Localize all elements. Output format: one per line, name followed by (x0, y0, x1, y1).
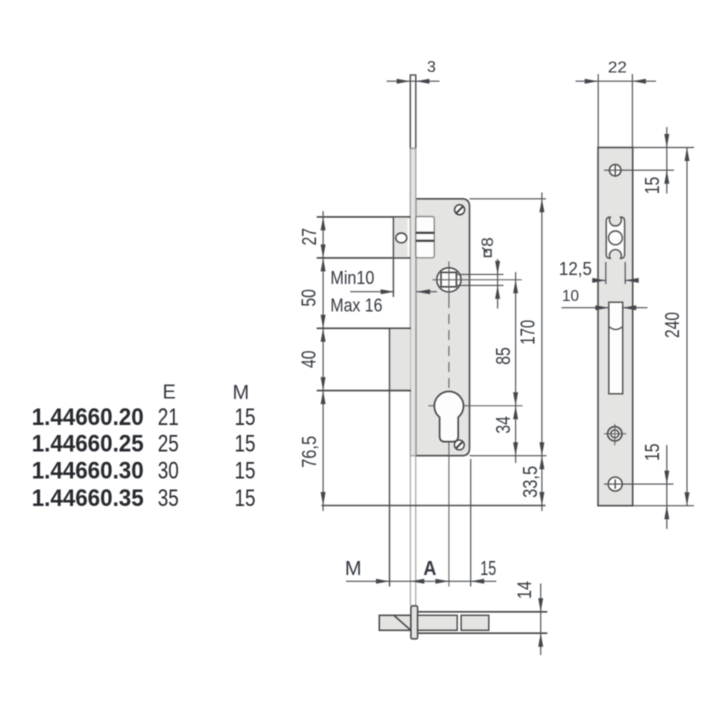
arrows chain dim 40 (321, 328, 326, 342)
bottom view latch bolt (379, 615, 411, 630)
svg-text:12,5: 12,5 (559, 259, 592, 279)
latch housing top line (317, 216, 411, 218)
dimension line dia 8 (497, 259, 499, 309)
svg-text:8: 8 (478, 237, 497, 246)
dimension 3 line (387, 80, 440, 82)
svg-text:1.44660.20: 1.44660.20 (32, 404, 144, 431)
lock body plate (416, 199, 470, 456)
svg-text:85: 85 (493, 347, 515, 365)
svg-text:E: E (163, 381, 176, 403)
dimension 15 bottom (666, 445, 668, 529)
latch roller ellipse (396, 233, 407, 243)
body top screw (455, 205, 465, 215)
svg-text:21: 21 (158, 404, 179, 431)
faceplate edge strip upper white part (410, 75, 416, 149)
right view top screw leader line (604, 169, 674, 171)
left chain dimension line (322, 211, 324, 511)
deadbolt end arc (609, 327, 623, 330)
body top extension line (470, 198, 547, 200)
arrows chain dim 50 (321, 258, 326, 272)
bottom view case white area (418, 613, 540, 633)
min-max dimension line (350, 291, 394, 293)
svg-text:25: 25 (158, 431, 179, 458)
latch tail bar lines (416, 232, 435, 234)
svg-text:15: 15 (235, 485, 256, 512)
svg-text:15: 15 (235, 431, 256, 458)
right view fixing point target (608, 427, 622, 441)
case gray infill 40 zone (390, 329, 411, 390)
right view deadbolt slot (609, 302, 623, 394)
spindle vertical centerline (448, 262, 450, 299)
right view faceplate front (598, 148, 633, 506)
bottom view case bottom line (418, 632, 548, 634)
dimension line 170 and 33,5 (541, 193, 543, 512)
dimension 240 (686, 148, 688, 506)
body bottom extension line (470, 455, 547, 457)
bottom dimension line M A 15 (346, 580, 496, 582)
svg-text:1.44660.35: 1.44660.35 (32, 485, 144, 512)
faceplate edge strip gray part (410, 149, 416, 456)
spindle follower circle (437, 268, 461, 292)
right view latch cutout (606, 217, 624, 258)
svg-text:10: 10 (562, 288, 579, 305)
svg-text:34: 34 (493, 416, 515, 434)
svg-text:M: M (345, 558, 362, 580)
euro cylinder profile hole (434, 391, 463, 441)
svg-text:35: 35 (158, 485, 179, 512)
svg-text:Max 16: Max 16 (330, 296, 382, 316)
cylinder vertical centerline (448, 391, 450, 587)
12,5 extension stubs (605, 262, 607, 284)
svg-text:170: 170 (517, 320, 539, 345)
bottom view inner block A (418, 615, 458, 630)
right view 22 extension lines (597, 74, 599, 148)
vertical centerline dash between spindle and cylinder (448, 298, 450, 391)
latch housing divider line (392, 217, 394, 297)
bottom view faceplate bar (411, 606, 418, 639)
svg-text:15: 15 (642, 177, 664, 195)
svg-text:1.44660.25: 1.44660.25 (32, 431, 144, 458)
case boundary line 50/40 (317, 327, 411, 329)
case bottom long line (322, 505, 546, 507)
case inner vertical line (389, 328, 391, 586)
bottom view inner block B (461, 615, 489, 630)
svg-text:40: 40 (299, 350, 321, 368)
plate bottom extension line (633, 505, 694, 507)
right view bottom screw (608, 477, 622, 491)
case boundary line 40/76.5 (317, 390, 411, 392)
dimension 10 line (562, 307, 648, 309)
svg-text:M: M (232, 382, 249, 404)
svg-text:3: 3 (427, 59, 436, 76)
spindle square hole 8mm (441, 272, 456, 286)
body bottom screw (454, 440, 464, 450)
svg-text:A: A (423, 558, 436, 580)
svg-text:14: 14 (515, 581, 536, 599)
spindle horizontal centerline (433, 279, 522, 281)
right view bottom screw leader line (604, 483, 674, 485)
right view top screw (609, 164, 621, 176)
square hole extension lines (456, 273, 503, 275)
cylinder horizontal centerline (428, 405, 522, 407)
dimension 22 line (576, 80, 657, 82)
bottom view case top line (418, 611, 548, 613)
dimension 15 top (666, 127, 668, 194)
svg-text:50: 50 (299, 289, 321, 307)
dimension 14 (540, 584, 542, 656)
arrows chain dim 27 (321, 217, 326, 231)
latch follower cutout in body (416, 217, 435, 258)
dimension 12,5 line (592, 279, 606, 281)
plate top extension line (633, 147, 694, 149)
svg-text:1.44660.30: 1.44660.30 (32, 457, 144, 484)
extension line body right edge to bottom dim (470, 459, 472, 587)
svg-text:76,5: 76,5 (299, 436, 321, 468)
svg-text:Min10: Min10 (330, 268, 374, 288)
svg-text:15: 15 (642, 443, 664, 461)
dimension line 85 and 34 (515, 272, 517, 463)
svg-text:15: 15 (235, 404, 256, 431)
svg-text:33,5: 33,5 (520, 466, 542, 498)
right view latch roller circle (609, 231, 623, 245)
svg-text:27: 27 (299, 228, 321, 246)
latch housing gray infill (393, 218, 407, 258)
svg-text:15: 15 (235, 457, 256, 484)
svg-text:240: 240 (662, 312, 684, 338)
arrows chain dim 76.5 (321, 391, 326, 405)
latch housing bottom line (317, 257, 411, 259)
faceplate strip extension lines below body (409, 456, 411, 606)
svg-text:15: 15 (480, 558, 496, 580)
bottom view latch bevel line (394, 615, 411, 630)
svg-text:30: 30 (158, 457, 179, 484)
svg-text:22: 22 (608, 60, 627, 77)
